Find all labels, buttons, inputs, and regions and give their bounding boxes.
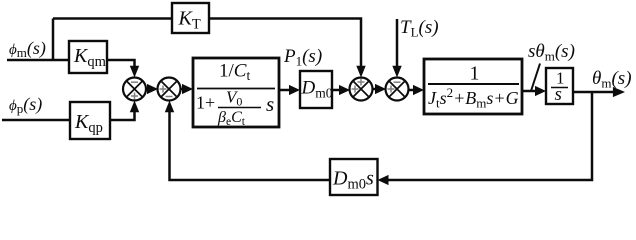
svg-text:ϕp(s): ϕp(s) bbox=[9, 94, 42, 116]
svg-text:Kqm: Kqm bbox=[73, 45, 107, 70]
block G2 mechanical 1/(Jt s2+Bm s+G) bbox=[424, 59, 522, 114]
block D_m0s bbox=[330, 159, 378, 195]
node phi_p(s) label bbox=[9, 94, 42, 116]
node phi_m(s) label bbox=[9, 38, 46, 60]
svg-text:1/Ct: 1/Ct bbox=[219, 61, 250, 84]
block D_m0 bbox=[300, 71, 333, 108]
wire K_qp to sum S1 bbox=[110, 101, 139, 121]
wire D_m0 to S3 bbox=[332, 85, 350, 95]
summing junction S2 (plus left, minus bottom) bbox=[158, 78, 181, 101]
block G1 hydraulic 1/Ct over 1+V0/(beCt)s bbox=[193, 58, 279, 128]
svg-text:sθm(s): sθm(s) bbox=[528, 41, 575, 64]
wire G1 to D_m0 bbox=[279, 85, 300, 95]
svg-text:KT: KT bbox=[178, 8, 201, 33]
block K_qm bbox=[69, 41, 107, 73]
wire K_qm to sum S1 bbox=[107, 60, 139, 78]
node s theta_m(s) label bbox=[528, 41, 575, 64]
svg-text:s: s bbox=[266, 92, 274, 116]
wire phi_p input bbox=[2, 119, 70, 122]
node T_L(s) label bbox=[400, 17, 439, 40]
svg-text:1: 1 bbox=[470, 63, 480, 85]
node P_1(s) label bbox=[283, 46, 322, 69]
svg-text:Dm0s: Dm0s bbox=[332, 168, 374, 193]
wire S2 to hydraulic block bbox=[180, 84, 193, 94]
wire T_L to S4 bbox=[392, 19, 401, 78]
svg-text:TL(s): TL(s) bbox=[400, 17, 439, 40]
svg-text:V0: V0 bbox=[226, 88, 242, 109]
svg-text:θm(s): θm(s) bbox=[592, 68, 632, 91]
wire S1 to S2 bbox=[146, 84, 159, 94]
svg-text:Kqp: Kqp bbox=[74, 111, 103, 136]
svg-text:Jts2+Bms+G: Jts2+Bms+G bbox=[428, 85, 519, 111]
block K_qp bbox=[70, 102, 110, 139]
wire S3 to S4 bbox=[372, 84, 386, 94]
wire D_m0s to S2 bbox=[165, 101, 330, 181]
summing junction S4 (minus top, plus left) bbox=[386, 78, 409, 101]
wire output to theta_m with arrow bbox=[573, 87, 625, 97]
svg-text:1+: 1+ bbox=[196, 93, 215, 113]
svg-text:P1(s): P1(s) bbox=[283, 46, 322, 69]
svg-text:ϕm(s): ϕm(s) bbox=[9, 38, 46, 60]
block integrator 1/s bbox=[546, 68, 573, 105]
svg-text:Dm0: Dm0 bbox=[301, 78, 333, 101]
wire phi_m input with branch to K_T bbox=[7, 19, 69, 61]
wire K_T path (top line from branch, through K_T, down to S3) bbox=[53, 19, 366, 78]
summing junction S1 (minus top, plus bottom) bbox=[123, 78, 146, 101]
block K_T bbox=[172, 3, 209, 33]
wire S4 to mechanical block bbox=[408, 85, 424, 95]
wire feedback tap down and to D_m0s bbox=[378, 92, 593, 185]
summing junction S3 (plus top, plus left) bbox=[350, 78, 373, 101]
node theta_m(s) label bbox=[592, 68, 632, 91]
wire G2 to integrator with slash tick bbox=[522, 64, 546, 97]
svg-text:βeCt: βeCt bbox=[217, 109, 246, 128]
